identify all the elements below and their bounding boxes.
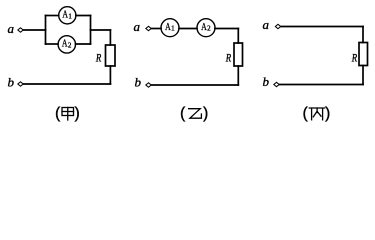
svg-text:(: ( — [303, 105, 309, 122]
svg-text:R: R — [95, 52, 101, 64]
wire corner down to resistor (circuit 乙) — [237, 29, 239, 44]
wire right junction to top corner (circuit 甲) — [91, 29, 111, 31]
terminal b (circuit 乙) — [146, 83, 151, 87]
resistor R (circuit 乙) — [234, 43, 243, 66]
caption (丙) — [303, 105, 331, 122]
svg-text:a: a — [134, 19, 141, 34]
wire resistor to bottom wire (circuit 乙) — [237, 66, 239, 85]
terminal b (circuit 丙) — [274, 82, 279, 86]
wire resistor to bottom wire (circuit 丙) — [362, 66, 364, 85]
ammeter A1 (circuit 甲) — [59, 7, 76, 24]
ammeter A2 (circuit 甲) — [58, 36, 75, 53]
wire top branch left (circuit 甲) — [46, 15, 59, 17]
top wire to corner (circuit 丙) — [281, 26, 363, 28]
svg-text:(: ( — [180, 105, 186, 122]
terminal a (circuit 乙) — [146, 26, 151, 30]
svg-text:): ) — [203, 105, 208, 122]
caption glyph 丙 — [309, 108, 324, 120]
svg-text:2: 2 — [68, 41, 72, 49]
wire terminal a to ammeter A1 (circuit 乙) — [152, 28, 162, 30]
terminal b (circuit 甲) — [18, 82, 23, 86]
terminal a (circuit 丙) — [275, 24, 280, 28]
wire between ammeters (circuit 乙) — [179, 28, 197, 30]
caption glyph 乙 — [189, 109, 202, 119]
wire corner down to resistor (circuit 甲) — [109, 30, 111, 45]
svg-text:): ) — [75, 105, 80, 122]
terminal a (circuit 甲) — [18, 28, 23, 32]
svg-text:): ) — [325, 105, 330, 122]
wire from terminal a to left junction (circuit 甲) — [24, 29, 46, 31]
svg-text:A: A — [62, 9, 68, 21]
svg-text:a: a — [8, 21, 15, 36]
caption (甲) — [55, 105, 80, 122]
bottom wire (circuit 甲) — [24, 83, 111, 85]
svg-text:A: A — [165, 21, 171, 33]
svg-text:1: 1 — [171, 25, 175, 33]
svg-text:b: b — [8, 75, 15, 90]
svg-text:2: 2 — [207, 25, 211, 33]
resistor R (circuit 丙) — [359, 43, 368, 66]
wire right parallel junction vertical (circuit 甲) — [90, 16, 92, 45]
ammeter A2 (circuit 乙) — [197, 19, 215, 37]
svg-text:(: ( — [55, 105, 61, 122]
wire left parallel junction vertical (circuit 甲) — [45, 16, 47, 45]
svg-text:1: 1 — [68, 12, 72, 20]
svg-text:b: b — [135, 75, 142, 90]
svg-text:b: b — [263, 74, 270, 89]
wire resistor to bottom wire (circuit 甲) — [109, 66, 111, 84]
svg-text:R: R — [351, 52, 357, 64]
wire bottom branch right (circuit 甲) — [76, 43, 91, 45]
bottom wire (circuit 丙) — [280, 84, 364, 86]
svg-text:R: R — [225, 52, 231, 64]
wire corner down to resistor (circuit 丙) — [362, 27, 364, 43]
bottom wire (circuit 乙) — [152, 84, 239, 86]
svg-text:A: A — [62, 38, 68, 50]
svg-text:A: A — [201, 21, 207, 33]
wire ammeter A2 to corner (circuit 乙) — [215, 28, 238, 30]
caption (乙) — [180, 105, 208, 122]
caption glyph 甲 — [62, 108, 74, 121]
svg-text:a: a — [263, 17, 270, 32]
ammeter A1 (circuit 乙) — [161, 19, 179, 37]
wire bottom branch left (circuit 甲) — [46, 43, 59, 45]
resistor R (circuit 甲) — [106, 45, 116, 66]
wire top branch right (circuit 甲) — [76, 15, 91, 17]
